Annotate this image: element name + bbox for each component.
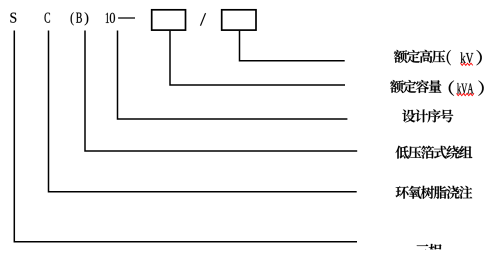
text kVA: [457, 83, 473, 94]
label 额定高压: [394, 50, 445, 63]
label 额定容量: [390, 80, 441, 93]
letter S: [10, 13, 16, 23]
wire from 10 down and right to 设计序号 label: [118, 31, 348, 120]
paren （ of kVA: [449, 81, 454, 96]
digit 0: [110, 13, 115, 23]
paren （ of kV: [447, 50, 451, 65]
box 1 (capacity placeholder): [152, 10, 186, 30]
wire from box2 down and right to 额定高压 label: [240, 31, 345, 61]
letter C: [45, 13, 51, 23]
letter B: [76, 13, 82, 23]
label 低压箔式绕组: [396, 146, 473, 159]
wire from box1 down and right to 额定容量 label: [170, 31, 345, 85]
paren ): [85, 12, 89, 25]
wire from S down and right to 三相 label: [14, 31, 357, 242]
label 三相 (clipped at bottom): [416, 244, 442, 257]
label 环氧树脂浇注: [396, 186, 473, 199]
spellcheck squiggle under kV: [461, 63, 473, 65]
dash after 10: [118, 17, 135, 19]
text kV: [461, 52, 474, 63]
spellcheck squiggle under kVA: [457, 93, 475, 95]
paren ） of kV: [476, 50, 481, 65]
digit 1: [106, 13, 109, 23]
paren (: [71, 12, 74, 25]
wire from C down and right to 环氧树脂浇注 label: [49, 31, 357, 192]
paren ） of kVA: [478, 81, 483, 96]
label 设计序号: [402, 109, 453, 122]
box 2 (voltage placeholder): [222, 10, 256, 30]
wire from B down and right to 低压箔式绕组 label: [85, 31, 357, 152]
slash between boxes: [200, 13, 206, 25]
white crop edge over 三相 bottom: [402, 249, 462, 255]
